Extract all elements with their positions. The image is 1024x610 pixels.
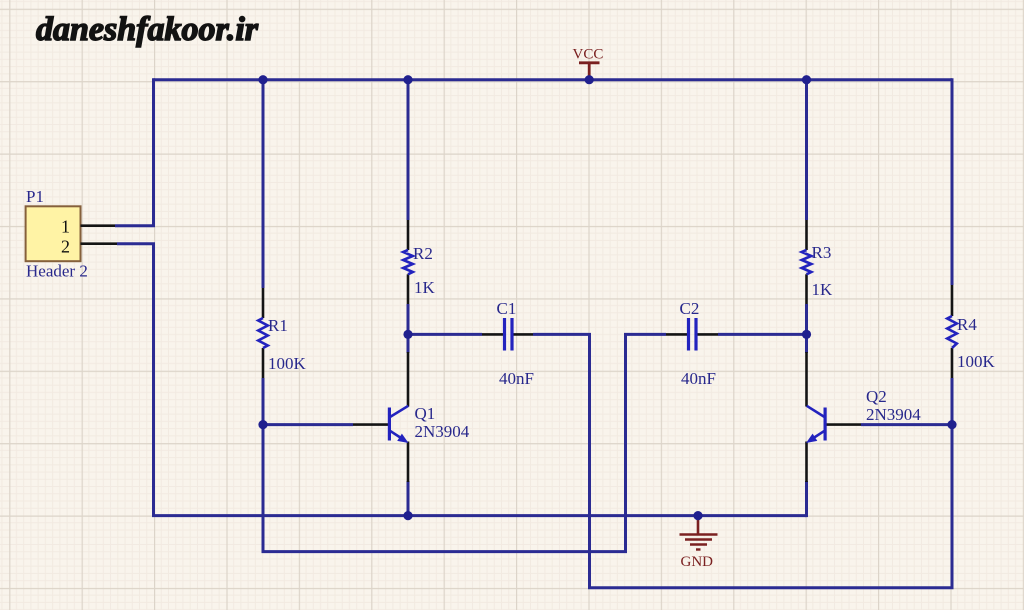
svg-text:daneshfakoor.ir: daneshfakoor.ir — [36, 11, 259, 48]
ground GND — [680, 517, 718, 570]
svg-text:40nF: 40nF — [681, 369, 716, 388]
junction: top rail / VCC — [585, 75, 594, 84]
wire: R1 branch upper — [262, 80, 265, 288]
svg-text:VCC: VCC — [573, 47, 604, 63]
svg-text:R4: R4 — [957, 315, 977, 334]
transistor Q2 — [806, 352, 921, 482]
svg-text:100K: 100K — [957, 352, 996, 371]
power VCC — [573, 47, 604, 79]
junction: bottom rail / GND — [693, 511, 702, 520]
wire: C1 node down to Q1 collector pin — [407, 334, 410, 353]
resistor R2 — [403, 220, 435, 304]
junction: R4 line / Q2 base — [947, 420, 956, 429]
resistor R1 — [258, 288, 306, 378]
wire: C1 left from node — [408, 333, 482, 336]
svg-text:2N3904: 2N3904 — [415, 422, 470, 441]
svg-text:GND: GND — [681, 554, 714, 570]
wire: C2 node down to Q2 collector pin — [805, 334, 808, 353]
wire: left rail upper (top rail to P1 pin 1) — [115, 78, 154, 226]
svg-text:2: 2 — [61, 237, 70, 257]
junction: top rail / R2 — [403, 75, 412, 84]
junction: R2 line / C1 — [403, 330, 412, 339]
wire: R4 branch upper (from top rail corner) — [951, 78, 954, 285]
wire: R3 bottom to C2 node — [805, 304, 808, 334]
wire: Q2 emitter down to bottom rail corner — [805, 481, 808, 517]
junction: R1 line / Q1 base — [258, 420, 267, 429]
svg-text:1K: 1K — [812, 280, 834, 299]
wire: R2 bottom to C1 node — [407, 304, 410, 334]
svg-text:1K: 1K — [414, 278, 436, 297]
wire: left rail lower (P1 pin 2 down to bottom rail) — [117, 244, 154, 516]
svg-text:C2: C2 — [680, 299, 700, 318]
wire: Q1 base wire from R1 node — [263, 423, 353, 426]
wire: Q2 base wire from R4 node — [861, 423, 952, 426]
svg-text:R1: R1 — [268, 316, 288, 335]
wire: bottom emitter/ground rail — [152, 514, 807, 517]
wire: R2 branch upper — [407, 80, 410, 220]
wire: Q1 emitter down to bottom rail — [407, 481, 410, 516]
svg-text:100K: 100K — [268, 354, 307, 373]
svg-text:Q2: Q2 — [866, 387, 887, 406]
svg-text:2N3904: 2N3904 — [866, 405, 921, 424]
capacitor C2 — [666, 299, 718, 388]
P1 pin 1 — [61, 217, 115, 237]
junction: top rail / R1 — [258, 75, 267, 84]
wire: top VCC rail — [154, 78, 953, 81]
svg-text:40nF: 40nF — [499, 369, 534, 388]
svg-text:R3: R3 — [812, 243, 832, 262]
svg-text:Header 2: Header 2 — [26, 262, 88, 281]
svg-text:P1: P1 — [26, 187, 44, 206]
transistor Q1 — [353, 352, 470, 482]
resistor R3 — [802, 220, 833, 304]
wire: R1 bottom, down and right to C2 left, up — [263, 334, 666, 551]
P1 pin 2 — [61, 237, 117, 257]
svg-text:R2: R2 — [413, 244, 433, 263]
wire: R3 branch upper — [805, 80, 808, 220]
header P1 — [26, 187, 88, 281]
svg-text:1: 1 — [61, 217, 70, 237]
capacitor C1 — [482, 299, 534, 388]
svg-text:C1: C1 — [497, 299, 517, 318]
junction: bottom rail / Q1 emitter — [403, 511, 412, 520]
junction: R3 line / C2 — [802, 330, 811, 339]
junction: top rail / R3 — [802, 75, 811, 84]
resistor R4 — [947, 285, 995, 378]
wire: C2 right to R3 node — [718, 333, 807, 336]
svg-text:Q1: Q1 — [415, 404, 436, 423]
wire: C1 right, down, along bottom, to R4 bottom — [533, 334, 952, 587]
